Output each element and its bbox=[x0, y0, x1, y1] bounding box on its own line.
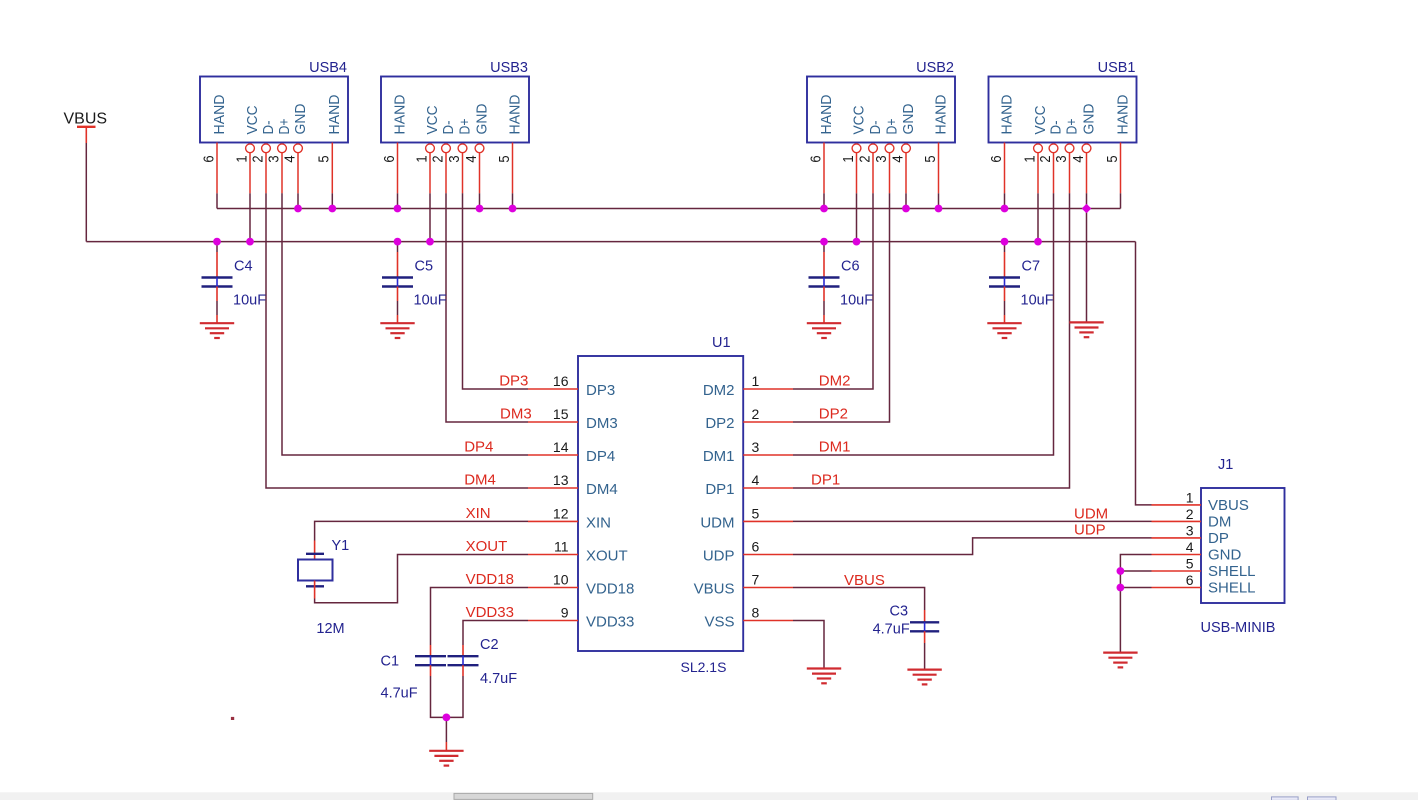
svg-text:DM3: DM3 bbox=[586, 415, 618, 432]
junction on VBUS bus bbox=[853, 238, 861, 246]
svg-text:DM4: DM4 bbox=[586, 481, 618, 498]
J1 pin 6 bbox=[1152, 572, 1202, 588]
wire C7 to ground bbox=[1004, 287, 1006, 302]
wire USB4 D+ to U1 DP4 bbox=[282, 193, 528, 455]
svg-text:DP: DP bbox=[1208, 530, 1229, 547]
svg-text:13: 13 bbox=[553, 472, 569, 488]
wire USB1 D- to U1 DM1 bbox=[793, 193, 1054, 455]
svg-text:2: 2 bbox=[856, 155, 873, 162]
ground bbox=[429, 751, 463, 766]
svg-text:HAND: HAND bbox=[211, 94, 228, 134]
svg-text:GND: GND bbox=[473, 103, 490, 134]
junction on VBUS bus bbox=[1034, 238, 1042, 246]
wire USB3 HAND(5) to GND bus bbox=[512, 193, 514, 208]
svg-text:HAND: HAND bbox=[932, 94, 949, 134]
svg-text:C3: C3 bbox=[890, 603, 909, 619]
svg-text:3: 3 bbox=[1053, 155, 1070, 162]
J1 pin 1 bbox=[1152, 489, 1202, 505]
junction on GND bus bbox=[1001, 205, 1009, 213]
wire USB1 VCC to VBUS bus bbox=[1037, 193, 1039, 241]
wire USB4 HAND(6) to GND bus bbox=[216, 193, 218, 208]
U1 pin 8 bbox=[743, 605, 793, 621]
wire USB4 D- to U1 DM4 bbox=[266, 193, 528, 488]
svg-text:DP3: DP3 bbox=[499, 373, 528, 390]
wire USB2 D- to U1 DM2 bbox=[793, 193, 873, 389]
svg-text:SHELL: SHELL bbox=[1208, 580, 1256, 597]
svg-text:4.7uF: 4.7uF bbox=[480, 671, 517, 687]
wire USB2 HAND(5) to GND bus bbox=[938, 193, 940, 208]
svg-text:UDM: UDM bbox=[700, 514, 734, 531]
svg-text:DP3: DP3 bbox=[586, 382, 615, 399]
svg-text:5: 5 bbox=[752, 505, 760, 521]
svg-text:D-: D- bbox=[1047, 120, 1064, 134]
svg-text:6: 6 bbox=[1186, 572, 1194, 588]
wire USB1 HAND(6) to GND bus bbox=[1004, 193, 1006, 208]
svg-text:DM1: DM1 bbox=[819, 439, 851, 456]
svg-text:2: 2 bbox=[1186, 506, 1194, 522]
U1 pin 14 bbox=[528, 439, 578, 455]
svg-text:4: 4 bbox=[281, 155, 298, 162]
svg-text:C2: C2 bbox=[480, 637, 499, 653]
svg-text:UDM: UDM bbox=[1074, 506, 1108, 523]
wire VBUS bus to C7 bbox=[1004, 242, 1006, 252]
svg-text:DP1: DP1 bbox=[811, 472, 840, 489]
svg-text:5: 5 bbox=[496, 155, 513, 162]
junction on GND bus bbox=[394, 205, 402, 213]
USB4 pin 3 (D+) bbox=[278, 144, 287, 193]
svg-text:XIN: XIN bbox=[466, 505, 491, 522]
svg-text:2: 2 bbox=[429, 155, 446, 162]
svg-text:2: 2 bbox=[752, 406, 760, 422]
svg-text:HAND: HAND bbox=[998, 94, 1015, 134]
svg-text:D-: D- bbox=[867, 120, 884, 134]
junction on GND bus bbox=[509, 205, 517, 213]
wire USB2 HAND(6) to GND bus bbox=[823, 193, 825, 208]
svg-text:C1: C1 bbox=[381, 654, 400, 670]
svg-text:16: 16 bbox=[553, 373, 569, 389]
svg-text:HAND: HAND bbox=[818, 94, 835, 134]
svg-text:XOUT: XOUT bbox=[586, 548, 628, 565]
USB4 pin 1 (VCC) bbox=[246, 144, 255, 193]
connector USB1 bbox=[988, 60, 1137, 163]
svg-text:DP4: DP4 bbox=[586, 448, 615, 465]
wire C3 to ground bbox=[924, 631, 926, 669]
junction on GND bus bbox=[902, 205, 910, 213]
svg-text:D-: D- bbox=[440, 120, 457, 134]
U1 pin 11 bbox=[528, 539, 578, 555]
svg-text:10uF: 10uF bbox=[233, 293, 266, 309]
svg-text:3: 3 bbox=[1186, 522, 1194, 538]
svg-text:8: 8 bbox=[752, 605, 760, 621]
wire U1 XIN to Y1 bbox=[315, 521, 528, 540]
svg-text:VBUS: VBUS bbox=[1208, 497, 1249, 514]
USB1 pin 1 (VCC) bbox=[1034, 144, 1043, 193]
svg-text:USB2: USB2 bbox=[916, 60, 954, 76]
svg-text:DP2: DP2 bbox=[819, 406, 848, 423]
svg-text:12M: 12M bbox=[316, 621, 344, 637]
corner button 2 bbox=[1308, 797, 1337, 800]
svg-text:14: 14 bbox=[553, 439, 569, 455]
U1 pin 3 bbox=[743, 439, 793, 455]
junction on VBUS bus bbox=[1001, 238, 1009, 246]
wire USB2 GND(4) to GND bus bbox=[905, 193, 907, 208]
svg-text:VDD33: VDD33 bbox=[466, 604, 514, 621]
svg-text:U1: U1 bbox=[712, 335, 731, 351]
capacitor C4 10uF bbox=[202, 259, 267, 309]
corner button 1 bbox=[1272, 797, 1299, 800]
ground bbox=[1103, 653, 1137, 668]
USB1 pin 5 (HAND) bbox=[1120, 143, 1122, 194]
U1 pin 9 bbox=[528, 605, 578, 621]
wire VBUS down to power bus bbox=[85, 143, 87, 242]
svg-text:VDD33: VDD33 bbox=[586, 614, 634, 631]
capacitor C2 4.7uF bbox=[448, 637, 518, 687]
svg-text:5: 5 bbox=[1186, 556, 1194, 572]
USB1 pin 6 (HAND) bbox=[1004, 143, 1006, 194]
wire USB1 GND(4) to GND bus bbox=[1086, 193, 1088, 321]
USB2 pin 5 (HAND) bbox=[938, 143, 940, 194]
svg-text:UDP: UDP bbox=[1074, 522, 1106, 539]
wire VBUS bus to C6 bbox=[823, 242, 825, 252]
op-amp U1 (SL2.1S hub controller) bbox=[578, 335, 743, 675]
svg-text:C6: C6 bbox=[841, 259, 860, 275]
junction on VBUS bus bbox=[213, 238, 221, 246]
junction on VBUS bus bbox=[246, 238, 254, 246]
wire USB2 D+ to U1 DP2 bbox=[793, 193, 890, 422]
U1 pin 6 bbox=[743, 539, 793, 555]
wire C4 to ground bbox=[216, 287, 218, 302]
junction on GND bus bbox=[935, 205, 943, 213]
svg-text:3: 3 bbox=[446, 155, 463, 162]
svg-text:D+: D+ bbox=[1063, 118, 1080, 134]
wire VBUS bus to C5 bbox=[397, 242, 399, 252]
svg-text:DM2: DM2 bbox=[819, 373, 851, 390]
svg-text:1: 1 bbox=[1021, 155, 1038, 162]
wire VBUS bus to J1 pin1 bbox=[1136, 242, 1152, 505]
svg-text:4: 4 bbox=[463, 155, 480, 162]
J1 pin 2 bbox=[1152, 506, 1202, 522]
svg-text:VSS: VSS bbox=[704, 614, 734, 631]
svg-text:12: 12 bbox=[553, 505, 569, 521]
U1 pin 16 bbox=[528, 373, 578, 389]
svg-text:4: 4 bbox=[752, 472, 760, 488]
svg-text:GND: GND bbox=[900, 103, 917, 134]
svg-text:VBUS: VBUS bbox=[694, 581, 735, 598]
svg-text:10uF: 10uF bbox=[840, 293, 873, 309]
svg-text:11: 11 bbox=[554, 539, 569, 555]
wire J1 SHELL pin6 bbox=[1120, 587, 1151, 589]
svg-text:7: 7 bbox=[752, 572, 760, 588]
svg-text:VDD18: VDD18 bbox=[586, 581, 634, 598]
USB3 pin 1 (VCC) bbox=[426, 144, 435, 193]
USB3 pin 2 (D-) bbox=[442, 144, 451, 193]
junction on GND bus bbox=[328, 205, 336, 213]
junction on VBUS bus bbox=[394, 238, 402, 246]
svg-text:UDP: UDP bbox=[703, 548, 735, 565]
USB1 pin 2 (D-) bbox=[1049, 144, 1058, 193]
svg-text:5: 5 bbox=[1104, 155, 1121, 162]
svg-text:XIN: XIN bbox=[586, 514, 611, 531]
svg-text:D+: D+ bbox=[276, 118, 293, 134]
wire C1/C2 to ground bbox=[431, 665, 464, 750]
wire U1 VBUS to C3 bbox=[793, 588, 925, 623]
svg-text:9: 9 bbox=[561, 605, 569, 621]
wire C6 to ground bbox=[823, 287, 825, 302]
svg-text:DM2: DM2 bbox=[703, 382, 735, 399]
USB4 pin 2 (D-) bbox=[262, 144, 271, 193]
svg-text:USB1: USB1 bbox=[1098, 60, 1136, 76]
connector USB4 bbox=[200, 60, 348, 163]
U1 pin 5 bbox=[743, 505, 793, 521]
U1 pin 4 bbox=[743, 472, 793, 488]
svg-text:VCC: VCC bbox=[424, 105, 441, 134]
svg-text:4: 4 bbox=[889, 155, 906, 162]
svg-text:15: 15 bbox=[553, 406, 569, 422]
ground (USB1 GND pin) bbox=[1069, 322, 1103, 337]
svg-text:VBUS: VBUS bbox=[844, 572, 885, 589]
svg-text:C4: C4 bbox=[234, 259, 253, 275]
wire USB3 D+ to U1 DP3 bbox=[463, 193, 529, 389]
wire U1 VSS to ground bbox=[793, 621, 824, 668]
USB3 pin 4 (GND) bbox=[475, 144, 484, 193]
U1 pin 2 bbox=[743, 406, 793, 422]
svg-text:1: 1 bbox=[752, 373, 760, 389]
svg-text:D+: D+ bbox=[883, 118, 900, 134]
svg-text:4.7uF: 4.7uF bbox=[873, 622, 910, 638]
svg-text:3: 3 bbox=[265, 155, 282, 162]
svg-text:6: 6 bbox=[200, 155, 217, 162]
wire VBUS bus to C4 bbox=[216, 242, 218, 252]
svg-text:USB4: USB4 bbox=[309, 60, 347, 76]
ground bbox=[907, 670, 941, 685]
USB4 pin 6 (HAND) bbox=[216, 143, 218, 194]
svg-text:USB3: USB3 bbox=[490, 60, 528, 76]
wire C5 to ground bbox=[397, 287, 399, 302]
svg-text:DM1: DM1 bbox=[703, 448, 735, 465]
wire VBUS bus (horizontal) bbox=[86, 241, 1135, 243]
capacitor C3 4.7uF bbox=[873, 603, 940, 637]
svg-text:10: 10 bbox=[553, 572, 569, 588]
svg-text:VCC: VCC bbox=[244, 105, 261, 134]
wire USB1 HAND(5) to GND bus bbox=[1120, 193, 1122, 208]
svg-text:5: 5 bbox=[922, 155, 939, 162]
USB1 pin 4 (GND) bbox=[1082, 144, 1091, 193]
svg-text:3: 3 bbox=[873, 155, 890, 162]
U1 pin 12 bbox=[528, 505, 578, 521]
crystal Y1 12M bbox=[298, 538, 349, 637]
junction on VBUS bus bbox=[426, 238, 434, 246]
svg-text:3: 3 bbox=[752, 439, 760, 455]
connector USB3 bbox=[381, 60, 529, 163]
svg-text:VCC: VCC bbox=[1032, 105, 1049, 134]
wire USB3 VCC to VBUS bus bbox=[429, 193, 431, 241]
wire USB4 VCC to VBUS bus bbox=[249, 193, 251, 241]
svg-text:DP4: DP4 bbox=[464, 439, 493, 456]
junction SHELL5 bbox=[1117, 567, 1125, 575]
svg-text:VCC: VCC bbox=[850, 105, 867, 134]
junction on GND bus bbox=[294, 205, 302, 213]
svg-text:VBUS: VBUS bbox=[64, 111, 108, 128]
U1 pin 13 bbox=[528, 472, 578, 488]
ground bbox=[807, 669, 841, 684]
capacitor C1 4.7uF bbox=[381, 654, 447, 702]
ground bbox=[807, 323, 841, 338]
junction C1/C2 ground node bbox=[443, 714, 451, 722]
capacitor C7 10uF bbox=[989, 259, 1054, 309]
wire USB3 D- to U1 DM3 bbox=[446, 193, 528, 422]
svg-text:2: 2 bbox=[1037, 155, 1054, 162]
cursor mark bbox=[231, 717, 234, 720]
capacitor C5 10uF bbox=[382, 259, 447, 309]
wire USB3 HAND(6) to GND bus bbox=[397, 193, 399, 208]
U1 pin 1 bbox=[743, 373, 793, 389]
ground bbox=[987, 323, 1021, 338]
svg-text:5: 5 bbox=[316, 155, 333, 162]
junction on GND bus bbox=[820, 205, 828, 213]
svg-text:6: 6 bbox=[752, 539, 760, 555]
connector USB2 bbox=[807, 60, 955, 163]
junction on GND bus (diamond) bbox=[1082, 204, 1092, 214]
svg-text:HAND: HAND bbox=[1114, 94, 1131, 134]
USB2 pin 3 (D+) bbox=[885, 144, 894, 193]
J1 pin 3 bbox=[1152, 522, 1202, 538]
U1 pin 7 bbox=[743, 572, 793, 588]
svg-text:6: 6 bbox=[988, 155, 1005, 162]
USB2 pin 4 (GND) bbox=[902, 144, 911, 193]
wire Y1 to U1 XOUT bbox=[315, 555, 528, 603]
ground bbox=[200, 323, 234, 338]
USB3 pin 3 (D+) bbox=[458, 144, 467, 193]
svg-text:USB-MINIB: USB-MINIB bbox=[1201, 620, 1276, 636]
wire U1 VDD33 to C2 bbox=[463, 621, 528, 657]
J1 pin 4 bbox=[1152, 539, 1202, 555]
USB4 pin 5 (HAND) bbox=[331, 143, 333, 194]
svg-text:C7: C7 bbox=[1022, 259, 1041, 275]
USB4 pin 4 (GND) bbox=[294, 144, 303, 193]
scrollbar thumb bbox=[454, 793, 593, 799]
svg-text:VDD18: VDD18 bbox=[466, 571, 514, 588]
svg-text:4: 4 bbox=[1070, 155, 1087, 162]
svg-text:1: 1 bbox=[1186, 489, 1194, 505]
svg-text:DP1: DP1 bbox=[705, 481, 734, 498]
wire USB3 GND(4) to GND bus bbox=[479, 193, 481, 208]
svg-text:10uF: 10uF bbox=[1021, 293, 1054, 309]
USB2 pin 6 (HAND) bbox=[823, 143, 825, 194]
USB2 pin 1 (VCC) bbox=[852, 144, 861, 193]
svg-text:GND: GND bbox=[1208, 547, 1242, 564]
svg-text:1: 1 bbox=[233, 155, 250, 162]
wire GND bus (horizontal) bbox=[217, 208, 1121, 210]
svg-text:4.7uF: 4.7uF bbox=[381, 686, 418, 702]
junction SHELL6 bbox=[1117, 584, 1125, 592]
capacitor C6 10uF bbox=[809, 259, 874, 309]
svg-text:DP2: DP2 bbox=[705, 415, 734, 432]
svg-text:DM: DM bbox=[1208, 513, 1231, 530]
svg-text:1: 1 bbox=[840, 155, 857, 162]
svg-text:HAND: HAND bbox=[506, 94, 523, 134]
svg-text:GND: GND bbox=[292, 103, 309, 134]
svg-text:DM3: DM3 bbox=[500, 406, 532, 423]
svg-text:GND: GND bbox=[1080, 103, 1097, 134]
connector J1 USB-MINIB bbox=[1201, 457, 1285, 636]
wire U1 UDM to J1 DM bbox=[793, 520, 1152, 522]
wire U1 UDP to J1 DP bbox=[793, 538, 1152, 555]
ground bbox=[380, 323, 414, 338]
svg-text:DM4: DM4 bbox=[464, 472, 496, 489]
USB2 pin 2 (D-) bbox=[869, 144, 878, 193]
U1 pin 10 bbox=[528, 572, 578, 588]
wire USB4 HAND(5) to GND bus bbox=[331, 193, 333, 208]
wire J1 SHELL pin5 bbox=[1120, 570, 1151, 572]
svg-text:10uF: 10uF bbox=[414, 293, 447, 309]
J1 pin 5 bbox=[1152, 556, 1202, 572]
wire J1 GND to ground bbox=[1120, 555, 1151, 652]
svg-text:2: 2 bbox=[249, 155, 266, 162]
svg-text:D+: D+ bbox=[456, 118, 473, 134]
svg-text:XOUT: XOUT bbox=[466, 538, 508, 555]
scrollbar track bbox=[0, 792, 1418, 800]
svg-text:Y1: Y1 bbox=[332, 538, 350, 554]
USB3 pin 6 (HAND) bbox=[397, 143, 399, 194]
svg-text:4: 4 bbox=[1186, 539, 1194, 555]
wire USB2 VCC to VBUS bus bbox=[856, 193, 858, 241]
svg-text:D-: D- bbox=[260, 120, 277, 134]
USB1 pin 3 (D+) bbox=[1065, 144, 1074, 193]
svg-text:C5: C5 bbox=[415, 259, 434, 275]
junction on VBUS bus bbox=[820, 238, 828, 246]
power flag VBUS bbox=[64, 111, 108, 144]
svg-text:HAND: HAND bbox=[326, 94, 343, 134]
wire USB1 D+ to U1 DP1 bbox=[793, 193, 1070, 488]
svg-text:6: 6 bbox=[807, 155, 824, 162]
svg-text:SL2.1S: SL2.1S bbox=[681, 659, 727, 675]
svg-text:6: 6 bbox=[381, 155, 398, 162]
U1 pin 15 bbox=[528, 406, 578, 422]
svg-text:SHELL: SHELL bbox=[1208, 563, 1256, 580]
USB3 pin 5 (HAND) bbox=[512, 143, 514, 194]
junction on GND bus bbox=[476, 205, 484, 213]
wire USB4 GND(4) to GND bus bbox=[297, 193, 299, 208]
svg-text:HAND: HAND bbox=[391, 94, 408, 134]
wire U1 VDD18 to C1 bbox=[431, 588, 529, 657]
svg-text:1: 1 bbox=[413, 155, 430, 162]
svg-text:J1: J1 bbox=[1218, 457, 1233, 473]
